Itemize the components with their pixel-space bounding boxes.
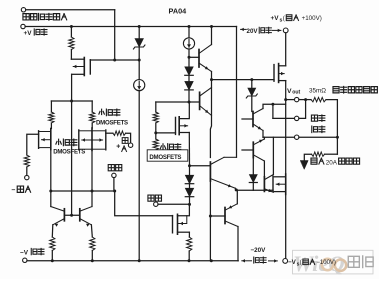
node Q8 drive junction [235, 188, 238, 191]
wire -V rail [27, 260, 238, 262]
wire shutdown line vertical drop [114, 10, 116, 60]
svg-text:+V: +V [271, 15, 280, 22]
label 小信号 (mid) [160, 144, 180, 150]
terminal +V boost [21, 24, 25, 28]
wire load bottom [325, 153, 338, 155]
transistor Q3 npn [199, 45, 212, 72]
svg-text:−V: −V [288, 259, 297, 266]
svg-text:−20V: −20V [251, 247, 267, 254]
transistor Q6 small-signal DMOSFET (lower mid) [173, 204, 190, 234]
wire Q1 source drop [50, 150, 52, 192]
svg-text:DMOSFETS: DMOSFETS [149, 154, 181, 161]
label 小信号 (right pair) [99, 109, 120, 116]
svg-text:+100V): +100V) [300, 15, 321, 22]
wire sense to right vertical [326, 100, 337, 155]
wire mid rail [156, 101, 199, 103]
label DMOSFETS (left pair) [53, 149, 85, 156]
current source CS2 [134, 60, 145, 261]
transistor Q5 small-signal DMOSFET (mid) [176, 102, 190, 135]
terminal +input [128, 143, 132, 147]
transistor Q11 mirror left [51, 191, 65, 237]
terminal shutdown-signal input [21, 8, 25, 12]
label PA04 [169, 7, 188, 16]
wire Q10 base lead [210, 215, 225, 217]
svg-text:DMOSFETS: DMOSFETS [53, 149, 85, 156]
transistor Q1 small-signal DMOSFET (-input) [39, 129, 51, 150]
transistor Q12 mirror right [80, 191, 93, 237]
node diff rail left [49, 190, 52, 193]
wire output vertical [285, 81, 287, 174]
node Q5 gate junction [154, 131, 157, 134]
terminal CL+ (row2) [295, 116, 299, 120]
resistor R2 [49, 101, 54, 129]
wire Qsd source drop [71, 74, 73, 101]
transistor QA current-limit npn [242, 104, 286, 137]
node mirror base center [70, 214, 73, 217]
wire Qsd gate lead [90, 59, 114, 61]
node mid rail x189 [188, 101, 191, 104]
diode D5 [249, 158, 257, 191]
resistor R7 [50, 237, 55, 261]
node Vout junction [284, 98, 287, 101]
diode D3 [185, 166, 194, 188]
svg-text:+: + [116, 143, 120, 150]
zener Z1 [133, 27, 145, 61]
wire Q5 source drop [188, 133, 190, 166]
wire input-stage drain rail [51, 100, 92, 102]
transistor Q9 npn (Vbe) [210, 157, 236, 190]
node +V rail x189 [188, 25, 191, 28]
node +V rail x71 [70, 25, 73, 28]
box DMOSFETS label frame [147, 150, 188, 161]
svg-text:35mΩ: 35mΩ [309, 88, 326, 95]
node -V rail x92 [91, 259, 94, 262]
node -V rail x139 [138, 259, 141, 262]
node NPN Q9 base junction [188, 164, 191, 167]
resistor R1 [69, 27, 74, 60]
terminal +Vs [283, 28, 288, 33]
node Q7 gate junction [210, 78, 213, 81]
wire comp1 drop [114, 178, 173, 216]
label +V提升 [24, 29, 47, 37]
terminal -input [25, 175, 29, 179]
current source CS1 [183, 27, 194, 58]
wire +V rail [25, 26, 236, 28]
label -输入 [12, 186, 31, 194]
node row3 right vertical [336, 136, 339, 139]
node diff rail right [91, 190, 94, 193]
label DMOSFETS (mid) [149, 154, 181, 161]
resistor R4 (-input series) [24, 155, 29, 175]
wire +Vs drop [285, 33, 287, 66]
node compensation1 junction [113, 190, 116, 193]
label DMOSFETS (right pair) [96, 120, 128, 127]
svg-text:+V: +V [24, 30, 33, 37]
wire to load arrow [304, 154, 311, 160]
wire tail vertical (Qsd source to mirror bases) [71, 101, 73, 215]
wire Q2 source drop [91, 150, 93, 191]
transistor Qsd shutdown p-MOSFET [71, 58, 90, 76]
wire Q8 gate line [236, 189, 273, 191]
label -Vs(max-100V) [288, 259, 336, 267]
terminal -V boost [23, 258, 27, 262]
wire Vout link [286, 99, 295, 101]
wire shutdown line top [26, 9, 115, 11]
terminal compensation 2 [154, 202, 158, 206]
wire x211 lower vertical [209, 181, 211, 261]
label 最大20A的负载 [311, 158, 360, 166]
svg-text:DMOSFETS: DMOSFETS [96, 120, 128, 127]
wire Q3 collector up [211, 27, 213, 45]
node -V rail x211 [210, 259, 213, 262]
wire row3 right [299, 136, 338, 138]
wire to Q9 base [190, 165, 211, 167]
zener Z2 [246, 80, 257, 112]
node -V rail x52 [51, 259, 54, 262]
label +Vs(max+100V) [271, 15, 322, 24]
ground load arrow [300, 161, 308, 170]
wire row3 [263, 136, 295, 138]
node CS1 bottom [188, 56, 191, 59]
label 补偿 (1) [108, 165, 122, 171]
diode D1 [185, 57, 194, 81]
diode D4 [185, 188, 194, 204]
wire row2 right [299, 100, 306, 119]
node Q10 base junction [209, 215, 212, 218]
diode D2 [185, 81, 194, 102]
wire +V rail drop (x236.5) [236, 27, 238, 158]
transistor Q7 power MOSFET (upper) [274, 64, 286, 83]
node sense resistor left [304, 98, 307, 101]
resistor Rs 35mohm [311, 97, 326, 101]
terminal Vout [295, 97, 299, 101]
svg-text:out: out [292, 90, 300, 96]
svg-text:20A: 20A [326, 159, 338, 166]
watermark logo [293, 251, 373, 276]
node QA collector junction [271, 103, 274, 106]
label 补偿 (2) [148, 195, 162, 201]
label 限流信号 [311, 115, 324, 133]
resistor R3 [90, 101, 95, 128]
node compensation2 junction [188, 203, 191, 206]
label +输入 [116, 138, 128, 152]
wire Q6 source to resistor [188, 232, 190, 237]
wire x212 vertical [210, 72, 211, 158]
wire diff output rail [51, 190, 115, 192]
label 35mohm sense [309, 86, 377, 94]
wire mirror base link [64, 214, 79, 216]
label 小信号 (left pair) [56, 139, 77, 146]
resistor R9 [187, 237, 192, 261]
resistor R6b [153, 139, 158, 150]
label 20V boost arrows [241, 27, 281, 35]
wire to Q3 base [189, 56, 199, 58]
wire Q8 source drop [285, 194, 287, 258]
svg-text:−V: −V [20, 250, 29, 257]
wire +input drop [126, 133, 131, 143]
wire row2 [273, 117, 295, 119]
wire row2 drop [272, 104, 274, 118]
node zener bottom junction [138, 59, 141, 62]
wire Q2 gate lead to +input resistor [106, 132, 113, 134]
node Q7 gate-zener junction [250, 78, 253, 81]
terminal compensation 1 [112, 173, 116, 177]
svg-text:(: ( [300, 260, 302, 266]
watermark box [293, 250, 374, 274]
wire Vout to sense [299, 99, 311, 101]
wire shutdown gate line to zener column [115, 59, 140, 61]
resistor R5 (+input series) [113, 131, 126, 135]
transistor QC current-limit npn [264, 137, 273, 192]
wire Q7 gate line [212, 79, 275, 81]
svg-text:−: − [12, 187, 16, 194]
node -V rail x189 [188, 259, 191, 262]
resistor Rload [312, 152, 325, 156]
label -20V boost arrows [242, 247, 277, 263]
node shutdown/gate junction [113, 59, 116, 62]
node +V rail x139 [138, 25, 141, 28]
node +V rail x211 [210, 25, 213, 28]
label Vout [287, 88, 301, 96]
resistor R6a [153, 102, 158, 139]
wire Q10 emitter up [236, 190, 238, 204]
wire comp2 link [158, 203, 190, 205]
transistor QB current-limit [242, 137, 264, 177]
transistor Q2 small-signal DMOSFET twin [79, 128, 106, 150]
label -V提升 [20, 248, 44, 256]
wire Q5 gate lead [156, 132, 176, 134]
transistor Q10 pnp [225, 204, 238, 261]
svg-text:20V: 20V [247, 28, 259, 35]
resistor R8 [90, 237, 95, 261]
transistor Q8 power MOSFET (lower) [273, 174, 286, 194]
wire Q1 gate lead [27, 134, 39, 155]
terminal CL- (row3) [295, 135, 299, 139]
transistor Q4 npn [200, 88, 212, 116]
label 停机信号输入 [23, 13, 67, 20]
svg-text:−100V): −100V) [316, 260, 336, 266]
svg-text:PA04: PA04 [169, 7, 188, 16]
node drain rail center [70, 100, 73, 103]
terminal -Vs [283, 259, 288, 264]
